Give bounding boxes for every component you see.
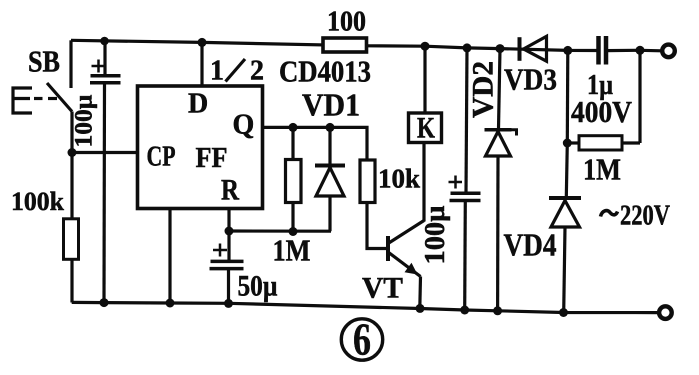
svg-text:220V: 220V	[620, 200, 670, 232]
svg-text:1M: 1M	[273, 233, 311, 268]
svg-text:100µ: 100µ	[71, 95, 98, 148]
svg-text:1: 1	[210, 56, 224, 87]
svg-text:CP: CP	[147, 141, 176, 173]
svg-text:VD4: VD4	[504, 227, 557, 263]
svg-text:VD2: VD2	[467, 61, 500, 118]
svg-text:SB: SB	[28, 44, 60, 79]
svg-text:100µ: 100µ	[420, 206, 451, 265]
svg-text:50µ: 50µ	[238, 270, 278, 303]
svg-text:CD4013: CD4013	[279, 54, 371, 89]
svg-text:D: D	[188, 89, 208, 120]
svg-text:1M: 1M	[583, 152, 621, 187]
svg-text:VT: VT	[362, 272, 403, 305]
svg-text:K: K	[417, 112, 436, 145]
svg-text:100: 100	[327, 7, 366, 38]
svg-text:6: 6	[353, 314, 371, 365]
svg-text:R: R	[221, 174, 239, 207]
svg-text:VD1: VD1	[302, 87, 360, 123]
svg-text:FF: FF	[196, 143, 228, 174]
svg-text:VD3: VD3	[504, 62, 557, 97]
svg-text:Q: Q	[233, 110, 255, 141]
svg-text:100k: 100k	[11, 187, 65, 216]
svg-text:400V: 400V	[571, 94, 633, 129]
svg-text:10k: 10k	[378, 164, 420, 194]
svg-text:2: 2	[250, 56, 264, 87]
